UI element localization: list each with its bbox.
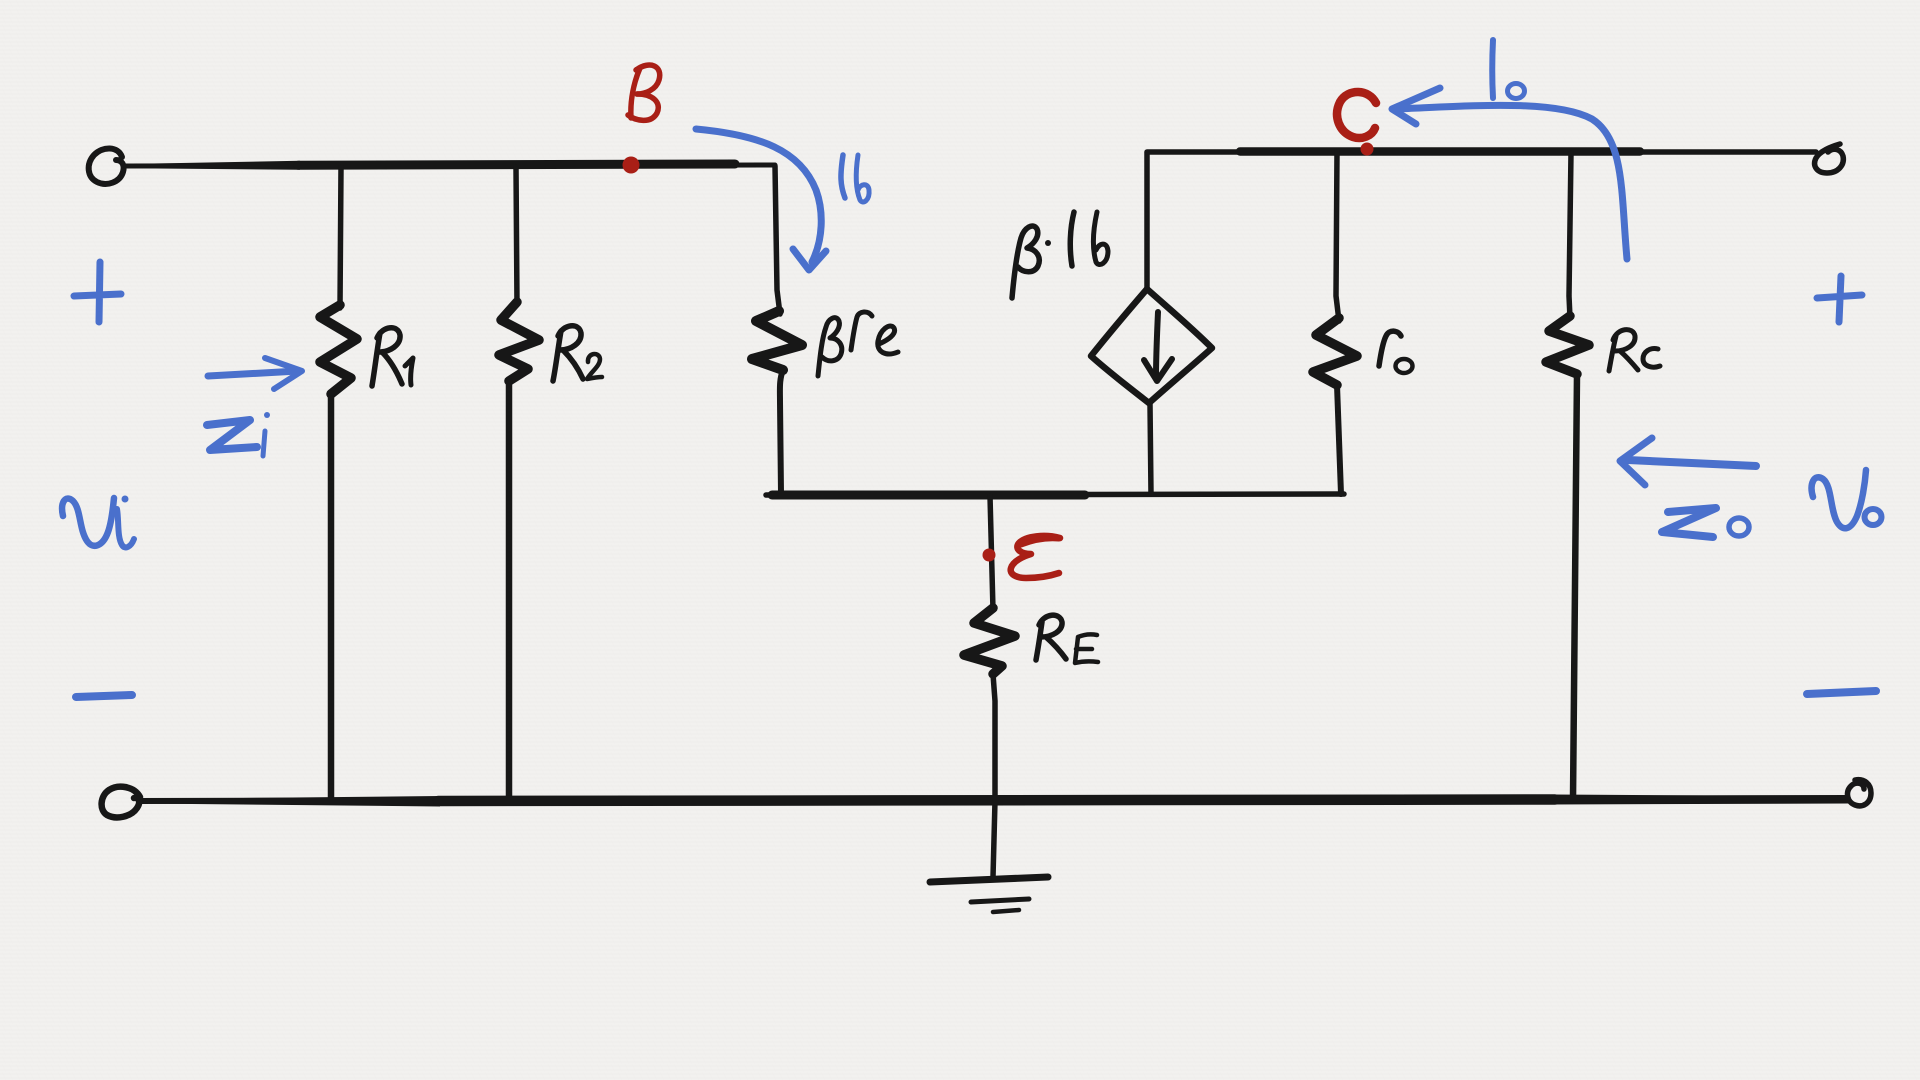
label Zo (1662, 508, 1716, 537)
terminal input top-left (89, 148, 124, 183)
label Vo (1812, 470, 1866, 528)
wire Rc bottom lead (1573, 374, 1577, 799)
label R2 (553, 331, 561, 381)
resistor ro (1313, 318, 1357, 385)
wire top input rail (125, 165, 775, 166)
wire bottom rail taper wedge (142, 796, 440, 807)
label ro (1379, 331, 1401, 366)
arrow Zo (1628, 460, 1756, 466)
label beta Ib (1012, 226, 1039, 298)
label Zi (207, 420, 257, 450)
wire thick overlay top rail (298, 164, 735, 165)
label Rc (1609, 336, 1616, 371)
wire bottom rail (140, 798, 1847, 801)
label E (1011, 536, 1060, 578)
resistor R2 (499, 302, 539, 381)
wire R2 top lead (516, 167, 517, 305)
wire source bottom lead (1150, 404, 1151, 494)
wire beta-re top lead (775, 166, 780, 314)
wire R1 bottom lead (328, 394, 335, 799)
resistor R1 (320, 305, 357, 394)
wire emitter rail (766, 494, 1344, 495)
plus output (1817, 276, 1862, 322)
minus output (1807, 691, 1876, 694)
red node letters (628, 65, 1376, 578)
current source arrow (1156, 312, 1158, 377)
label C (1337, 92, 1376, 138)
label B (631, 68, 640, 118)
resistor RE (964, 608, 1015, 674)
terminal bottom-right (1848, 780, 1871, 806)
wire RE top lead (990, 496, 993, 610)
blue annotations (62, 40, 1881, 697)
current source U1 diamond (1091, 289, 1212, 403)
node C (1361, 143, 1374, 156)
label Io (1489, 40, 1496, 98)
wire Rc top lead (1569, 153, 1571, 318)
wire bottom rail right taper wedge (1553, 795, 1849, 805)
minus input (76, 695, 132, 697)
wire top rail taper wedge (127, 161, 300, 170)
wire thick overlay output rail (1240, 147, 1640, 156)
wire R1 top lead (340, 167, 341, 308)
label beta re (818, 318, 842, 376)
arrow Io (1396, 105, 1627, 259)
label RE (1036, 622, 1042, 660)
terminal bottom-left (102, 787, 140, 818)
arrow Ib (696, 129, 821, 262)
wire source top lead (1144, 153, 1150, 288)
label Vi (62, 498, 114, 546)
wire beta-re bottom lead (780, 370, 783, 493)
resistor beta-re (752, 311, 802, 370)
label R1 (372, 333, 380, 386)
resistor Rc (1546, 316, 1589, 374)
node E (983, 549, 996, 562)
node B (623, 157, 640, 174)
wire ro top lead (1336, 152, 1339, 321)
wire bottom rail thick overlay (438, 800, 1555, 802)
wire ground lead (993, 801, 995, 877)
wire top output rail (1147, 149, 1816, 155)
black handwritten labels (372, 212, 1660, 663)
wire emitter rail thick overlay (772, 491, 1085, 500)
ground (930, 877, 1048, 882)
wire R2 bottom lead (506, 381, 513, 799)
wire ro bottom lead (1337, 385, 1341, 494)
wire RE bottom lead (993, 674, 995, 799)
label Ib (841, 155, 845, 198)
plus input (74, 262, 121, 322)
arrow Zi (208, 371, 298, 376)
terminal output top-right (1815, 144, 1844, 173)
